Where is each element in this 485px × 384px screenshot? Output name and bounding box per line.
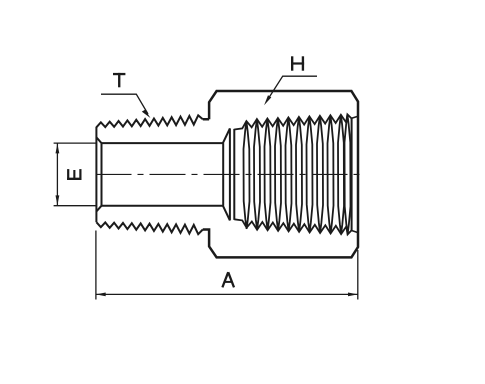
fitting body outline bbox=[203, 91, 358, 257]
male end face bbox=[95, 127, 97, 222]
male NPT thread T zigzag top bbox=[96, 115, 202, 127]
dim A text bbox=[222, 272, 234, 287]
dim A arrow left bbox=[96, 293, 106, 297]
dim A extension line right bbox=[357, 250, 359, 300]
entrance chamfer to right face bottom bbox=[352, 231, 358, 233]
label T leader arrow bbox=[142, 110, 151, 118]
bore end circle edge bbox=[222, 143, 224, 206]
label H leader line bbox=[267, 76, 317, 101]
label H text bbox=[291, 56, 304, 70]
bore bottom line bbox=[102, 205, 223, 207]
cone into female thread top bbox=[223, 128, 230, 143]
dim A extension line left bbox=[95, 231, 97, 300]
bore entrance chamfer bottom bbox=[96, 206, 101, 212]
dim E line bbox=[56, 143, 58, 206]
label T text bbox=[113, 73, 125, 87]
bore chamfer base edge bbox=[101, 143, 103, 206]
cone into female thread bottom bbox=[223, 206, 230, 221]
dim E arrow down bbox=[56, 195, 60, 205]
dim A arrow right bbox=[348, 293, 358, 297]
female NPT thread H crest zigzag bottom bbox=[234, 219, 351, 234]
dim A line bbox=[96, 293, 358, 295]
label H leader arrow bbox=[264, 95, 271, 105]
cone base edge bbox=[229, 128, 231, 220]
bore entrance chamfer top bbox=[96, 137, 101, 143]
dim E extension line bottom bbox=[54, 205, 97, 207]
dim E arrow up bbox=[56, 144, 60, 154]
female NPT thread H crest zigzag top bbox=[234, 114, 351, 129]
male NPT thread T zigzag bottom bbox=[96, 222, 202, 234]
bore top line bbox=[102, 142, 223, 144]
female thread end wall edge bbox=[351, 118, 353, 230]
female thread helix teeth bbox=[244, 115, 351, 234]
label T leader line bbox=[101, 94, 148, 114]
centerline bbox=[96, 173, 365, 175]
thread start edge bbox=[233, 129, 235, 220]
dim E extension line top bbox=[54, 142, 97, 144]
entrance chamfer to right face top bbox=[352, 116, 358, 118]
dim E text bbox=[67, 169, 81, 180]
